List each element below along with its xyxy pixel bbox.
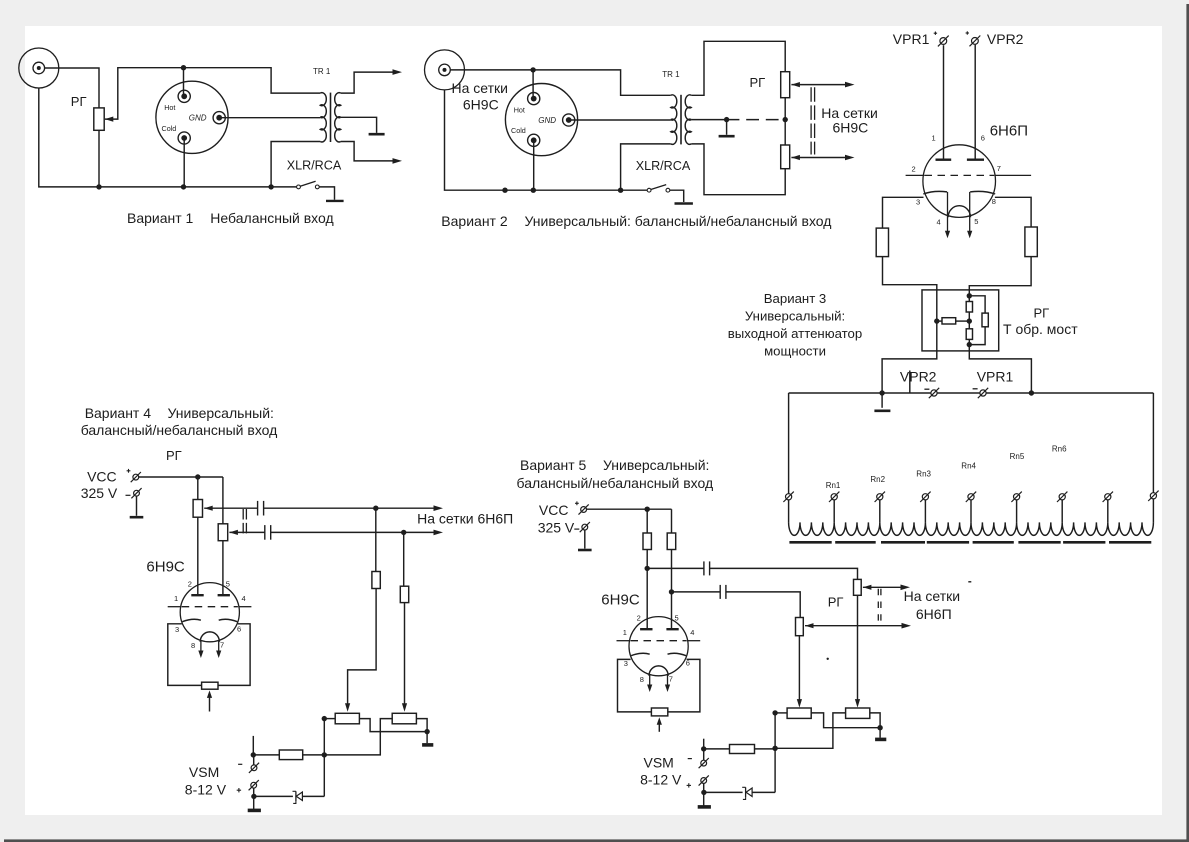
svg-text:3: 3 (916, 198, 920, 207)
svg-text:Hot: Hot (514, 105, 525, 114)
svg-text:2: 2 (912, 165, 916, 174)
svg-text:Универсальный:: Универсальный: (168, 405, 274, 421)
svg-text:Rn1: Rn1 (826, 481, 841, 490)
svg-text:8: 8 (992, 197, 996, 206)
svg-text:5: 5 (226, 580, 230, 589)
svg-text:8-12 V: 8-12 V (640, 772, 682, 788)
svg-text:РГ: РГ (828, 595, 844, 610)
svg-text:Т обр. мост: Т обр. мост (1003, 321, 1078, 337)
svg-text:VPR2: VPR2 (900, 368, 937, 384)
svg-text:РГ: РГ (166, 448, 182, 463)
svg-text:8: 8 (640, 675, 644, 684)
svg-text:8: 8 (191, 641, 195, 650)
svg-text:Универсальный: балансный/небал: Универсальный: балансный/небалансный вхо… (525, 213, 832, 229)
svg-text:6Н9С: 6Н9С (601, 591, 640, 608)
svg-text:4: 4 (242, 594, 246, 603)
svg-text:Вариант 2: Вариант 2 (441, 213, 508, 229)
svg-text:TR 1: TR 1 (313, 67, 331, 76)
svg-text:VCC: VCC (539, 502, 569, 518)
svg-text:1: 1 (623, 628, 627, 637)
svg-text:1: 1 (174, 594, 178, 603)
svg-text:балансный/небалансный вход: балансный/небалансный вход (81, 422, 278, 438)
svg-text:VPR2: VPR2 (987, 31, 1024, 47)
svg-text:4: 4 (690, 628, 694, 637)
svg-text:Небалансный вход: Небалансный вход (210, 210, 333, 226)
svg-text:Rn2: Rn2 (870, 475, 885, 484)
svg-text:РГ: РГ (1034, 305, 1050, 320)
svg-text:7: 7 (669, 675, 673, 684)
svg-text:5: 5 (675, 614, 679, 623)
svg-text:6: 6 (237, 625, 241, 634)
svg-text:Вариант 3: Вариант 3 (764, 291, 827, 306)
svg-text:Rn4: Rn4 (961, 461, 976, 470)
svg-text:На сетки 6Н6П: На сетки 6Н6П (417, 510, 513, 526)
svg-text:Cold: Cold (162, 124, 177, 133)
svg-text:XLR/RCA: XLR/RCA (636, 159, 691, 173)
svg-text:На сетки: На сетки (452, 80, 508, 96)
svg-text:325 V: 325 V (81, 485, 118, 501)
svg-text:6Н9С: 6Н9С (833, 120, 869, 136)
svg-text:3: 3 (175, 625, 179, 634)
svg-text:РГ: РГ (750, 75, 766, 90)
svg-text:РГ: РГ (71, 94, 87, 109)
svg-text:6Н9С: 6Н9С (463, 97, 499, 113)
svg-text:5: 5 (974, 217, 978, 226)
svg-text:6: 6 (981, 134, 985, 143)
svg-text:Вариант 1: Вариант 1 (127, 210, 194, 226)
svg-text:VPR1: VPR1 (977, 368, 1014, 384)
svg-text:На сетки: На сетки (904, 588, 960, 604)
svg-text:6Н6П: 6Н6П (916, 606, 952, 622)
svg-text:XLR/RCA: XLR/RCA (287, 158, 342, 172)
svg-text:Вариант 4: Вариант 4 (85, 405, 152, 421)
svg-text:1: 1 (932, 134, 936, 143)
svg-text:7: 7 (220, 641, 224, 650)
svg-text:2: 2 (188, 580, 192, 589)
svg-text:VCC: VCC (87, 468, 117, 484)
svg-text:Rn5: Rn5 (1010, 452, 1025, 461)
svg-text:325 V: 325 V (538, 520, 575, 536)
svg-text:6Н6П: 6Н6П (990, 123, 1028, 140)
svg-text:VPR1: VPR1 (893, 31, 930, 47)
svg-text:выходной аттенюатор: выходной аттенюатор (728, 326, 862, 341)
svg-text:Универсальный:: Универсальный: (745, 309, 845, 324)
svg-text:8-12 V: 8-12 V (185, 782, 227, 798)
svg-text:VSM: VSM (644, 755, 674, 771)
svg-text:мощности: мощности (764, 343, 826, 358)
svg-text:3: 3 (624, 659, 628, 668)
svg-text:GND: GND (189, 114, 207, 123)
svg-text:Вариант 5: Вариант 5 (520, 457, 587, 473)
svg-text:балансный/небалансный вход: балансный/небалансный вход (517, 475, 714, 491)
svg-text:На сетки: На сетки (821, 105, 877, 121)
svg-text:VSM: VSM (189, 764, 219, 780)
svg-text:7: 7 (997, 164, 1001, 173)
svg-text:2: 2 (637, 614, 641, 623)
svg-text:Rn3: Rn3 (916, 469, 931, 478)
svg-text:Hot: Hot (164, 103, 175, 112)
svg-text:6Н9С: 6Н9С (146, 559, 185, 576)
svg-text:TR 1: TR 1 (662, 70, 680, 79)
svg-text:Универсальный:: Универсальный: (603, 457, 709, 473)
svg-text:Cold: Cold (511, 126, 526, 135)
svg-text:GND: GND (538, 116, 556, 125)
svg-text:4: 4 (937, 218, 941, 227)
svg-text:Rn6: Rn6 (1052, 445, 1067, 454)
